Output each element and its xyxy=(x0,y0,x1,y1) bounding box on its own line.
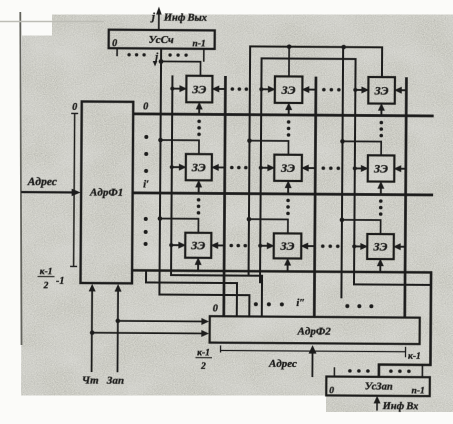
select line C2 xyxy=(314,77,316,317)
junction dot A1 top xyxy=(159,59,164,64)
svg-text:Адрес: Адрес xyxy=(268,358,297,370)
block UsZap (write amplifiers) xyxy=(326,377,430,397)
dot A3 top xyxy=(341,45,346,50)
sense line A1 (from UsSch tick j down, bend to AdrF2) xyxy=(159,49,251,317)
top tie line y46 with A2, A3 xyxy=(249,46,383,276)
svg-text:УсЗап: УсЗап xyxy=(365,381,393,392)
svg-text:-1: -1 xyxy=(56,276,64,287)
svg-text:к-1: к-1 xyxy=(40,267,53,277)
col2 row1 top feed xyxy=(288,47,290,77)
svg-text:ЗЭ: ЗЭ xyxy=(373,161,388,175)
dots under UsSch left xyxy=(127,53,130,56)
svg-text:Инф Вх: Инф Вх xyxy=(382,401,419,412)
InfVkh input arrow xyxy=(376,399,378,410)
svg-text:п-1: п-1 xyxy=(412,386,425,396)
dots above UsZap xyxy=(348,369,352,373)
svg-text:АдрФ2: АдрФ2 xyxy=(297,325,332,337)
sense line A3 xyxy=(341,47,343,298)
storage element ZE row1 col2 xyxy=(259,76,316,115)
svg-text:2: 2 xyxy=(200,362,206,372)
select line C3 xyxy=(405,77,407,317)
svg-text:ЗЭ: ЗЭ xyxy=(191,160,206,174)
wire box top tap col2 row2 xyxy=(249,141,288,155)
middle bend line from row line xyxy=(146,270,237,316)
storage element ZE row1 col1 xyxy=(170,76,225,115)
block AdrF2 xyxy=(210,316,420,344)
svg-text:ЗЭ: ЗЭ xyxy=(280,239,295,253)
storage element ZE row3 col3 xyxy=(352,234,405,272)
wire box top tap col1 row3 xyxy=(160,219,199,233)
block UsSch (sense amplifiers) xyxy=(109,30,215,49)
dot col2 top xyxy=(287,44,292,49)
svg-text:УсСч: УсСч xyxy=(149,34,174,46)
tick n-1 under UsSch xyxy=(203,49,205,62)
svg-text:ЗЭ: ЗЭ xyxy=(280,161,295,175)
svg-text:0: 0 xyxy=(112,38,117,49)
tick above UsZap left xyxy=(333,367,335,376)
svg-text:ЗЭ: ЗЭ xyxy=(374,83,389,97)
page edge crease line left xyxy=(20,12,21,345)
wire box top tap col3 row3 xyxy=(342,220,381,234)
storage element ZE row3 col1 xyxy=(169,233,224,271)
svg-text:ЗЭ: ЗЭ xyxy=(191,82,206,96)
vertical ellipsis dots on column centers xyxy=(197,119,201,123)
svg-text:п-1: п-1 xyxy=(192,39,205,49)
svg-text:0: 0 xyxy=(72,102,77,113)
word line row i' xyxy=(133,193,433,195)
Zap branch to AdrF2 xyxy=(118,320,202,323)
svg-text:к-1: к-1 xyxy=(197,348,210,358)
svg-text:0: 0 xyxy=(329,386,334,396)
Cht branch to AdrF2 xyxy=(92,332,202,335)
svg-text:АдрФ1: АдрФ1 xyxy=(89,187,123,199)
tick to UsZap top right xyxy=(421,365,423,377)
Zap control line xyxy=(116,290,119,372)
block AdrF1 xyxy=(81,101,134,283)
svg-text:i″: i″ xyxy=(296,298,305,309)
storage element ZE row2 col3 xyxy=(353,155,406,195)
svg-text:к-1: к-1 xyxy=(408,352,421,362)
wire box top tap col1 row2 xyxy=(160,140,199,154)
wire box top tap col3 row2 xyxy=(342,141,381,155)
svg-text:Инф Вых: Инф Вых xyxy=(163,13,207,24)
storage element ZE row2 col2 xyxy=(259,155,316,195)
svg-text:ЗЭ: ЗЭ xyxy=(373,240,388,254)
dots above AdrF2 right xyxy=(345,304,349,308)
wire box top tap col1 row1 xyxy=(161,61,201,75)
svg-text:ЗЭ: ЗЭ xyxy=(281,83,296,97)
Cht control line xyxy=(91,290,94,372)
dimension line under AdrF2 xyxy=(221,350,406,351)
top tie line y58 B2-B3 xyxy=(260,58,433,285)
svg-text:Адрес: Адрес xyxy=(27,176,57,188)
storage element ZE row2 col1 xyxy=(170,154,225,194)
svg-text:i′: i′ xyxy=(143,179,149,190)
tick 0 under UsSch xyxy=(116,48,118,56)
word line row 0 xyxy=(133,114,433,116)
svg-text:Чт: Чт xyxy=(82,374,99,386)
wire box top tap col2 row3 xyxy=(249,219,288,233)
line B1 with bend to AdrF2 xyxy=(171,75,264,316)
svg-text:ЗЭ: ЗЭ xyxy=(190,238,205,252)
word line row last, bends down to UsZap xyxy=(131,270,431,377)
faint top crease xyxy=(0,21,104,23)
svg-text:Зап: Зап xyxy=(106,375,124,387)
svg-text:0: 0 xyxy=(213,303,218,314)
svg-text:0: 0 xyxy=(143,101,148,112)
row ellipsis dots left xyxy=(144,135,148,139)
dots under UsSch right xyxy=(168,53,171,56)
storage element ZE row1 col3 xyxy=(353,77,406,116)
dots above AdrF2 left xyxy=(254,302,258,306)
storage element ZE row3 col2 xyxy=(258,233,315,271)
horizontal ellipsis dots between columns xyxy=(231,87,235,91)
InfVykh output arrow xyxy=(158,14,160,30)
svg-text:2: 2 xyxy=(43,281,49,291)
select line C1 xyxy=(224,76,226,316)
bracket line left of AdrF1 xyxy=(74,113,75,266)
